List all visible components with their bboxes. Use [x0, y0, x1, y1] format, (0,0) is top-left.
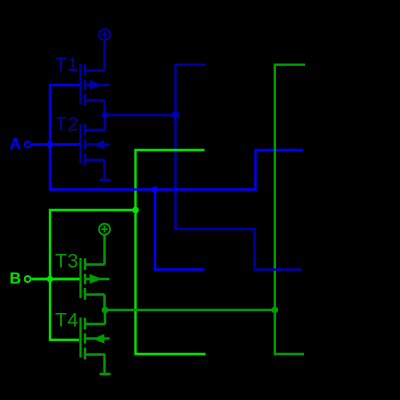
T3 drain to supply [103, 234, 105, 264]
T4 channel segment bottom [84, 348, 86, 360]
wire input B [32, 278, 82, 281]
T4 bulk arrow [93, 334, 105, 344]
T1 channel segment top [84, 64, 86, 76]
transistor T2 [81, 115, 110, 179]
T4 channel segment top [84, 318, 86, 330]
wire net B: mid stub, long vertical, bottom-left stub [136, 150, 206, 354]
T2 source down to ground [103, 160, 105, 179]
T4 gate bar [79, 318, 81, 358]
T2 channel segment bottom [84, 154, 86, 166]
ground below T4 [100, 373, 111, 376]
svg-text:T4: T4 [55, 310, 79, 332]
wire T1/T2 midpoint to output rail [105, 114, 176, 116]
T1 source stub [85, 99, 105, 101]
T4 source stub [85, 353, 105, 355]
T3 source stub [85, 293, 105, 295]
T4 source down to ground [103, 355, 105, 373]
T1 gate bar [79, 64, 81, 104]
T3 channel segment middle [84, 274, 86, 284]
wire T1/T2 output net lower Z: right, down, right [176, 228, 302, 270]
input terminal circle A [25, 142, 31, 148]
T4 drain up to midpoint node [104, 310, 106, 324]
svg-text:T3: T3 [55, 251, 79, 273]
wire T3/T4 output net: right rail with top and bottom stubs [275, 65, 305, 354]
transistor T4 [81, 310, 110, 373]
T1 channel segment middle [84, 80, 86, 90]
wire net A: gate wire, left vertical, bottom horizontal, up, right stub [50, 85, 303, 190]
T3 gate bar [79, 258, 81, 298]
wire T1/T2 output net: top stub and vertical rail [176, 65, 206, 229]
T2 bulk arrow [93, 140, 105, 150]
wire net B: top horizontal, left vertical, T4 gate wire [50, 210, 136, 340]
T3 bulk arrow [90, 274, 103, 284]
T3 drain stub [85, 263, 105, 265]
node junction net B top [132, 207, 139, 214]
ground below T2 [100, 179, 111, 182]
T2 source stub [85, 159, 105, 161]
wire input A [32, 143, 82, 146]
T3 channel segment bottom [84, 288, 86, 300]
T2 channel segment middle [84, 139, 86, 149]
T3 channel segment top [84, 258, 86, 270]
T2 drain stub [85, 129, 105, 131]
node junction on right rail [271, 307, 278, 314]
svg-text:T2: T2 [55, 114, 79, 136]
transistor T1 [81, 40, 110, 115]
T1 channel segment bottom [84, 94, 86, 106]
node junction T1-T2 midpoint [102, 112, 109, 119]
T1 bulk lead [85, 84, 110, 86]
svg-text:T1: T1 [55, 54, 79, 76]
node A junction [46, 140, 55, 149]
T2 bulk lead [85, 143, 110, 145]
T4 channel segment middle [84, 333, 86, 343]
T1 drain stub [85, 69, 105, 71]
T1 bulk arrow [90, 80, 103, 90]
wire net A elbow: down and right [155, 190, 205, 270]
T1 source down to midpoint node [103, 101, 105, 116]
node junction on output rail x=175.5 [172, 111, 180, 119]
T2 drain up to midpoint node [104, 115, 106, 130]
node junction T3-T4 midpoint [102, 307, 109, 314]
transistor T3 [81, 234, 110, 310]
svg-text:A: A [10, 136, 22, 153]
T2 gate bar [79, 124, 81, 164]
svg-text:B: B [10, 271, 22, 288]
T4 drain stub [85, 323, 105, 325]
label T1 digit serif foot [69, 69, 77, 71]
power supply symbol above T3 [99, 224, 110, 235]
T2 channel segment top [84, 124, 86, 136]
T1 drain to supply [103, 40, 105, 70]
T3 source down to midpoint node [103, 295, 105, 310]
T3 bulk lead [85, 278, 110, 280]
input terminal circle B [25, 276, 31, 282]
node B junction [46, 275, 55, 284]
wire T3/T4 midpoint to right rail [105, 309, 275, 311]
T4 bulk lead [85, 337, 110, 339]
power supply symbol above T1 [99, 29, 110, 40]
node junction on net A bottom line [152, 186, 159, 193]
